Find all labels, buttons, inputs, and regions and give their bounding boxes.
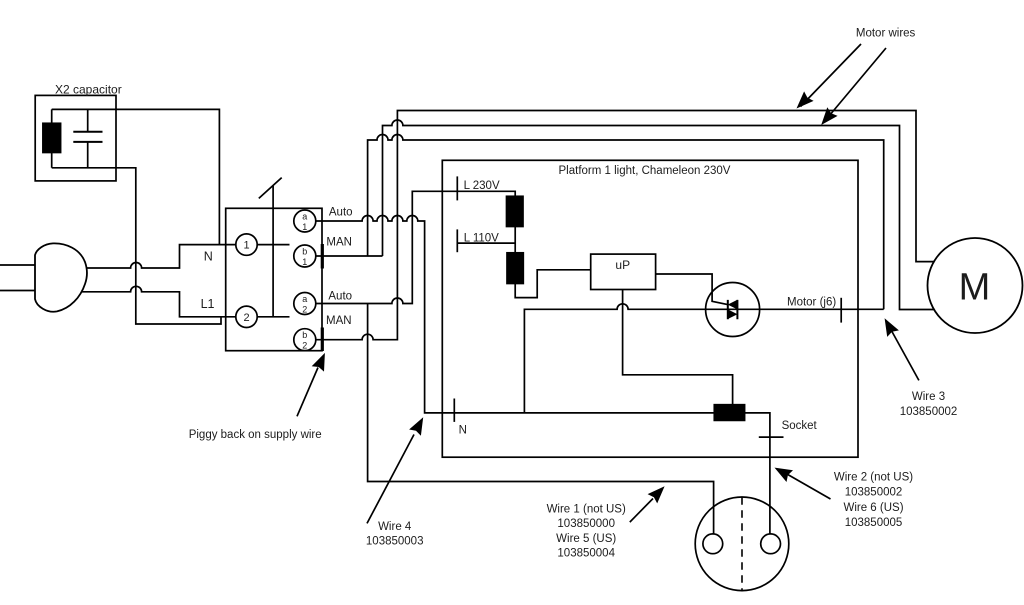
capacitor C plates [73, 132, 102, 142]
wire plug top to terminal 1 (hops over capacitor return) [80, 245, 236, 268]
wire motor line 2 from b1 end [383, 120, 937, 310]
svg-text:Platform 1 light, Chameleon 23: Platform 1 light, Chameleon 230V [559, 165, 731, 177]
svg-text:N: N [459, 425, 467, 437]
contact 2 stub [257, 316, 289, 318]
svg-text:103850003: 103850003 [366, 536, 424, 548]
wire plug bottom to terminal 2 (hops over capacitor return) [80, 286, 236, 316]
terminal a2 [294, 293, 316, 315]
triac Q1 bars [728, 300, 738, 319]
op-amp uP box [591, 254, 656, 289]
capacitor C leads [87, 109, 89, 167]
svg-text:2: 2 [243, 312, 249, 324]
switch actuator slash [259, 178, 282, 199]
arrow wire 1 [630, 499, 653, 523]
svg-text:1: 1 [302, 222, 307, 232]
svg-text:Auto: Auto [329, 206, 353, 218]
arrowhead wire 2 [775, 468, 794, 482]
svg-text:Wire 3: Wire 3 [912, 391, 945, 403]
wire capacitor top lead to node N [52, 109, 220, 244]
svg-text:103850000: 103850000 [557, 518, 615, 530]
pole circle 1 [236, 234, 257, 255]
svg-text:a: a [302, 294, 307, 304]
svg-text:uP: uP [615, 258, 630, 272]
arrow wire 4 [367, 435, 414, 524]
wire a1 Auto to node N lower (hops x4) [316, 216, 715, 413]
svg-text:103850004: 103850004 [557, 548, 615, 560]
inner box platform light [442, 160, 858, 457]
wire b1 MAN [316, 255, 383, 257]
arrowhead motor wires 2 [821, 107, 837, 125]
svg-text:b: b [302, 330, 307, 340]
svg-text:2: 2 [302, 305, 307, 315]
svg-text:Wire 5 (US): Wire 5 (US) [556, 533, 616, 545]
arrowhead wire 1 [648, 486, 665, 503]
wire socket to plug pin right [745, 413, 770, 534]
triac Q1 circle [706, 283, 760, 337]
wire supply stub bottom left [0, 290, 35, 292]
arrow motor wires 1 [801, 44, 862, 107]
svg-text:103850005: 103850005 [845, 517, 903, 529]
terminal tick L 230V [456, 176, 458, 200]
svg-text:Motor wires: Motor wires [856, 28, 916, 40]
resistor (suppression, filled) [43, 123, 61, 152]
svg-text:L 230V: L 230V [464, 180, 500, 192]
svg-text:1: 1 [302, 257, 307, 267]
pole circle 2 [236, 306, 257, 327]
terminal tick Motor (j6) [840, 298, 842, 323]
svg-text:103850002: 103850002 [845, 487, 903, 499]
terminal tick N [453, 399, 455, 422]
contact bar b1 [321, 244, 324, 269]
arrow wire 3 [890, 328, 919, 380]
svg-text:Wire 6 (US): Wire 6 (US) [843, 502, 903, 514]
plug divider dashed [741, 497, 743, 590]
resistor (suppression, filled) leads [51, 109, 53, 167]
arrow piggy back [297, 368, 318, 417]
plug body (mains plug) [35, 243, 87, 311]
wire capacitor bottom lead to node L1 [52, 168, 221, 324]
svg-text:Piggy back on supply wire: Piggy back on supply wire [189, 429, 322, 441]
svg-text:a: a [302, 212, 307, 222]
svg-text:1: 1 [243, 240, 249, 252]
svg-text:L 110V: L 110V [464, 233, 499, 245]
wire a2 Auto to L 230V feed (hops x1) [316, 191, 515, 303]
plug pin left [703, 534, 723, 554]
terminal tick socket [759, 436, 784, 438]
contact bar b2 [321, 328, 324, 352]
svg-text:N: N [204, 250, 213, 264]
svg-text:MAN: MAN [326, 315, 352, 327]
wire 4 net: a2 tap down to bottom run and plug pin left [368, 304, 714, 535]
wire L110V to resistor junction [457, 242, 515, 244]
svg-text:X2 capacitor: X2 capacitor [55, 83, 122, 97]
wire b2 MAN to motor line 1 (hop x1) [316, 111, 936, 340]
triac Q1 triangles [728, 300, 738, 319]
terminal tick L 110V [456, 229, 458, 252]
plug circle (US outlet) [695, 497, 789, 591]
switch box [226, 208, 322, 350]
terminal b1 [294, 245, 316, 267]
svg-text:MAN: MAN [326, 236, 352, 248]
wire uP bottom to socket [623, 290, 733, 405]
svg-text:103850002: 103850002 [900, 406, 958, 418]
wire uP to triac gate [656, 274, 728, 305]
motor M circle [928, 238, 1023, 333]
svg-text:L1: L1 [201, 297, 215, 311]
arrow wire 2 [786, 474, 831, 500]
svg-text:M: M [959, 267, 991, 309]
svg-text:Socket: Socket [782, 420, 818, 432]
arrowhead piggy back [312, 353, 325, 372]
arrowhead wire 4 [409, 417, 423, 436]
arrow motor wires 2 [824, 48, 886, 122]
svg-text:Wire 1 (not US): Wire 1 (not US) [547, 504, 626, 516]
svg-text:Wire 4: Wire 4 [378, 521, 412, 533]
svg-text:Wire 2 (not US): Wire 2 (not US) [834, 472, 913, 484]
resistor R1 (230V dropper, filled) [507, 196, 524, 226]
svg-text:2: 2 [302, 341, 307, 351]
capacitor X2 box [35, 95, 116, 180]
arrowhead wire 3 [885, 318, 899, 337]
arrowhead motor wires 1 [797, 91, 814, 108]
svg-text:Motor (j6): Motor (j6) [787, 296, 836, 308]
terminal a1 [294, 210, 316, 232]
socket connector (filled) [714, 405, 744, 421]
svg-text:b: b [302, 247, 307, 257]
svg-text:Auto: Auto [328, 291, 352, 303]
wire main triac line N to motor j6 (hop over uP drop) [524, 304, 883, 413]
resistor R1 lead [514, 227, 516, 253]
switch pole vertical [272, 186, 274, 317]
plug pin right [761, 534, 781, 554]
contact 1 stub [257, 244, 289, 246]
wire R2 bottom to uP [515, 270, 591, 298]
wire motor line 3 from b1 tap (hops x2) [368, 135, 884, 310]
wire supply stub top left [0, 264, 35, 266]
terminal b2 [294, 329, 316, 351]
resistor R2 (110V dropper, filled) [507, 253, 523, 284]
